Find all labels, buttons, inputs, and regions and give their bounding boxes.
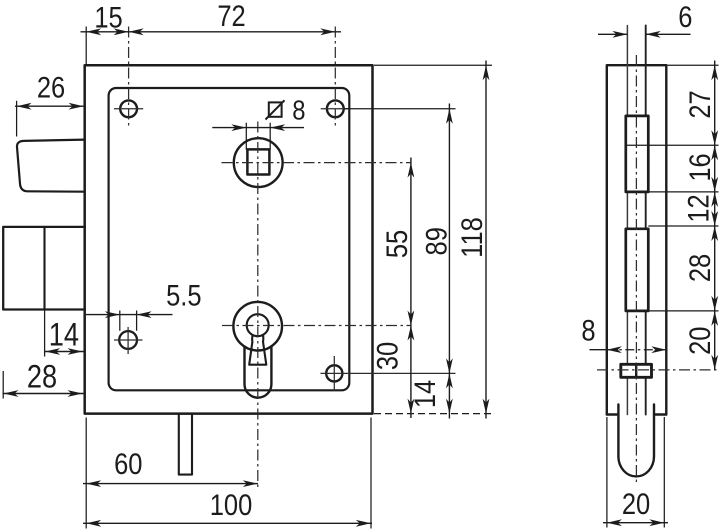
arrows 16 xyxy=(711,145,718,160)
arrows 60 xyxy=(86,480,101,487)
extension lines 5.5 xyxy=(120,311,137,331)
svg-text:89: 89 xyxy=(420,227,453,255)
centerline side vertical xyxy=(635,55,637,482)
extension line case right bottom xyxy=(370,418,372,529)
arrows 100 xyxy=(86,520,101,527)
svg-text:20: 20 xyxy=(683,327,716,355)
svg-text:12: 12 xyxy=(682,194,715,222)
centerline left screw column xyxy=(128,27,130,128)
centerline keyhole vertical xyxy=(257,122,259,488)
dimension line top 15/72 xyxy=(81,31,342,33)
svg-text:14: 14 xyxy=(49,317,79,353)
svg-text:8: 8 xyxy=(292,94,305,126)
svg-text:8: 8 xyxy=(581,314,595,347)
crosshair top-right screw xyxy=(321,108,350,110)
arrows 20 side xyxy=(711,311,718,326)
keyhole slot xyxy=(247,314,269,365)
centerline staple slot horizontal xyxy=(597,369,719,371)
key boss side xyxy=(626,229,649,311)
dimension 8 line xyxy=(590,349,607,351)
arrows 8 xyxy=(607,346,622,353)
arrowheads side xyxy=(607,31,718,526)
dimension 26 line xyxy=(15,105,85,107)
svg-text:14: 14 xyxy=(408,380,441,408)
svg-text:100: 100 xyxy=(210,488,253,521)
extension line bolt divider xyxy=(44,310,46,357)
arrows 26 xyxy=(17,103,32,110)
arrows 14 right xyxy=(446,373,453,388)
arrows 55 xyxy=(408,163,415,178)
dimension 6 line xyxy=(598,33,691,35)
extension line case bottom to 118 (dashed) xyxy=(374,413,492,415)
arrows 28 left xyxy=(4,390,19,397)
svg-text:30: 30 xyxy=(371,342,404,370)
follower square spindle hole xyxy=(247,149,269,174)
extension line left faceplate top xyxy=(85,27,87,65)
dimension 5.5 line xyxy=(86,314,173,316)
arrowheads front xyxy=(4,28,490,526)
dimension 60 line xyxy=(83,483,258,485)
centerline follower horizontal xyxy=(222,162,411,164)
crosshair 5.5 hole xyxy=(114,327,143,354)
follower boss side xyxy=(626,116,649,192)
latch bolt side xyxy=(618,405,654,477)
centerline right screw column xyxy=(334,27,336,128)
svg-text:60: 60 xyxy=(114,447,142,480)
extension line case top side xyxy=(666,64,718,66)
side case bottom edge segments xyxy=(607,413,667,415)
extension lines bottom 20 xyxy=(607,417,664,528)
extension line bolt left edge xyxy=(2,371,4,399)
extension line follower boss mid xyxy=(626,144,719,146)
svg-text:20: 20 xyxy=(622,487,650,520)
arrows 72 xyxy=(129,28,144,35)
arrows 118 xyxy=(483,65,490,80)
staple slot side xyxy=(621,364,652,377)
extension line follower boss bottom xyxy=(648,191,718,193)
arrows 20 bottom xyxy=(607,519,622,526)
faceplate left edge xyxy=(626,26,628,415)
centerline keyhole horizontal xyxy=(222,325,411,327)
svg-text:5.5: 5.5 xyxy=(166,279,201,312)
svg-text:55: 55 xyxy=(380,230,413,258)
screw hole top-right xyxy=(327,100,344,117)
arrows 89 xyxy=(446,109,453,124)
arrows 14 left xyxy=(45,348,60,355)
extension line top screw row to 89 xyxy=(344,108,456,110)
arrows square 8 (outside) xyxy=(231,124,246,131)
extension line key boss bottom xyxy=(626,310,719,312)
dimension 100 line xyxy=(83,522,372,524)
arrows 12 xyxy=(711,192,718,207)
svg-text:16: 16 xyxy=(683,153,716,181)
fixing hole 5.5 xyxy=(119,331,137,349)
svg-text:118: 118 xyxy=(455,217,488,258)
label square-8 symbol xyxy=(266,100,285,119)
dimension 14 left line xyxy=(45,351,84,353)
dimension line 89/14 xyxy=(448,104,450,419)
screw hole top-left xyxy=(120,100,137,117)
svg-text:6: 6 xyxy=(678,0,692,33)
arrows 6 (outside) xyxy=(612,31,627,38)
fixing stem at bottom xyxy=(179,414,192,475)
extension line key boss top xyxy=(648,225,718,227)
follower hub circle xyxy=(234,138,283,187)
lock case outer plate xyxy=(85,65,373,413)
svg-text:26: 26 xyxy=(37,71,65,104)
arrows 30 xyxy=(408,326,415,341)
centerline bottom screw horizontal xyxy=(321,372,456,374)
svg-text:15: 15 xyxy=(94,1,122,34)
dead bolt (lower left protrusion) xyxy=(3,227,85,310)
svg-text:27: 27 xyxy=(683,90,716,118)
arrows 5.5 (outside) xyxy=(105,311,120,318)
extension lines square 8 xyxy=(246,123,270,150)
keyhole outer boss xyxy=(233,302,282,398)
extension line case left bottom xyxy=(85,418,87,529)
dimension square 8 line xyxy=(212,127,304,129)
extension line latch left xyxy=(16,101,18,137)
dimension column right line xyxy=(714,61,716,370)
crosshair top-left screw xyxy=(114,108,143,110)
arrows 27 xyxy=(711,65,718,80)
svg-text:72: 72 xyxy=(217,0,245,32)
svg-text:28: 28 xyxy=(683,254,716,282)
dimension line 55/30 xyxy=(410,158,412,419)
arrows 28 side xyxy=(711,226,718,241)
faceplate right edge xyxy=(645,26,647,415)
arrows 15 xyxy=(86,28,101,35)
dimension 20 bottom line xyxy=(603,522,668,524)
svg-text:28: 28 xyxy=(27,359,57,395)
screw hole bottom-right xyxy=(326,365,342,381)
crosshair bottom-right screw vertical xyxy=(333,356,335,391)
extension line case top to 118 xyxy=(374,64,492,66)
dimension line 118 xyxy=(485,61,487,419)
latch bolt (top left protrusion) xyxy=(17,140,85,192)
lock cover inner plate (rounded rect) xyxy=(109,88,350,390)
dimension 28 left line xyxy=(3,393,84,395)
side case box xyxy=(607,65,667,414)
